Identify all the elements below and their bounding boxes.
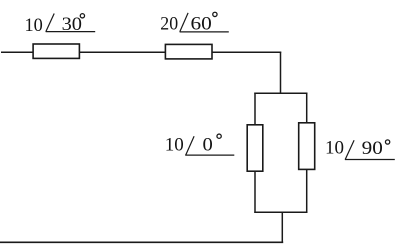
wire: top rail of parallel section (254, 92, 307, 94)
svg-text:30: 30 (62, 14, 82, 35)
wire: Z1 to Z2 (80, 51, 165, 53)
wire: right branch top (306, 93, 308, 123)
label Z1 angle underline (46, 31, 95, 33)
label Z3 angle slash (186, 136, 194, 155)
svg-text:60: 60 (191, 13, 212, 34)
label Z2 degree symbol (213, 12, 217, 16)
resistor Z3 (10&#8736;0&#176;) (247, 125, 263, 171)
resistor Z4 (10&#8736;90&#176;) (299, 123, 315, 170)
label Z4 degree symbol (385, 140, 389, 144)
resistor Z2 (20&#8736;60&#176;) (165, 44, 212, 59)
label Z3 angle underline (185, 154, 234, 156)
wire: left branch top (254, 93, 256, 125)
wire: left input to Z1 (1, 51, 33, 53)
label Z1 degree symbol (80, 14, 84, 18)
label Z3 degree symbol (217, 134, 221, 138)
label Z1 angle slash (46, 14, 54, 32)
svg-text:90: 90 (362, 138, 383, 159)
wire: left branch bottom (254, 172, 256, 214)
svg-text:0: 0 (203, 134, 213, 155)
resistor Z1 (10&#8736;30&#176;) (33, 44, 79, 58)
svg-text:10: 10 (325, 138, 344, 159)
wire: Z2 to corner (212, 51, 281, 53)
svg-text:20: 20 (160, 14, 178, 35)
wire: bottom bus (0, 241, 283, 243)
label Z4 angle slash (345, 140, 354, 159)
wire: bottom rail of parallel section (254, 211, 307, 213)
svg-text:10: 10 (25, 15, 43, 36)
wire: vertical feed down to parallel section (280, 52, 282, 94)
wire: right branch bottom (306, 170, 308, 214)
label Z2 angle slash (180, 13, 188, 32)
svg-text:10: 10 (165, 135, 184, 156)
wire: bottom feed down to bus (281, 212, 283, 243)
label Z2 angle underline (180, 31, 229, 33)
label Z4 angle underline (345, 159, 395, 161)
